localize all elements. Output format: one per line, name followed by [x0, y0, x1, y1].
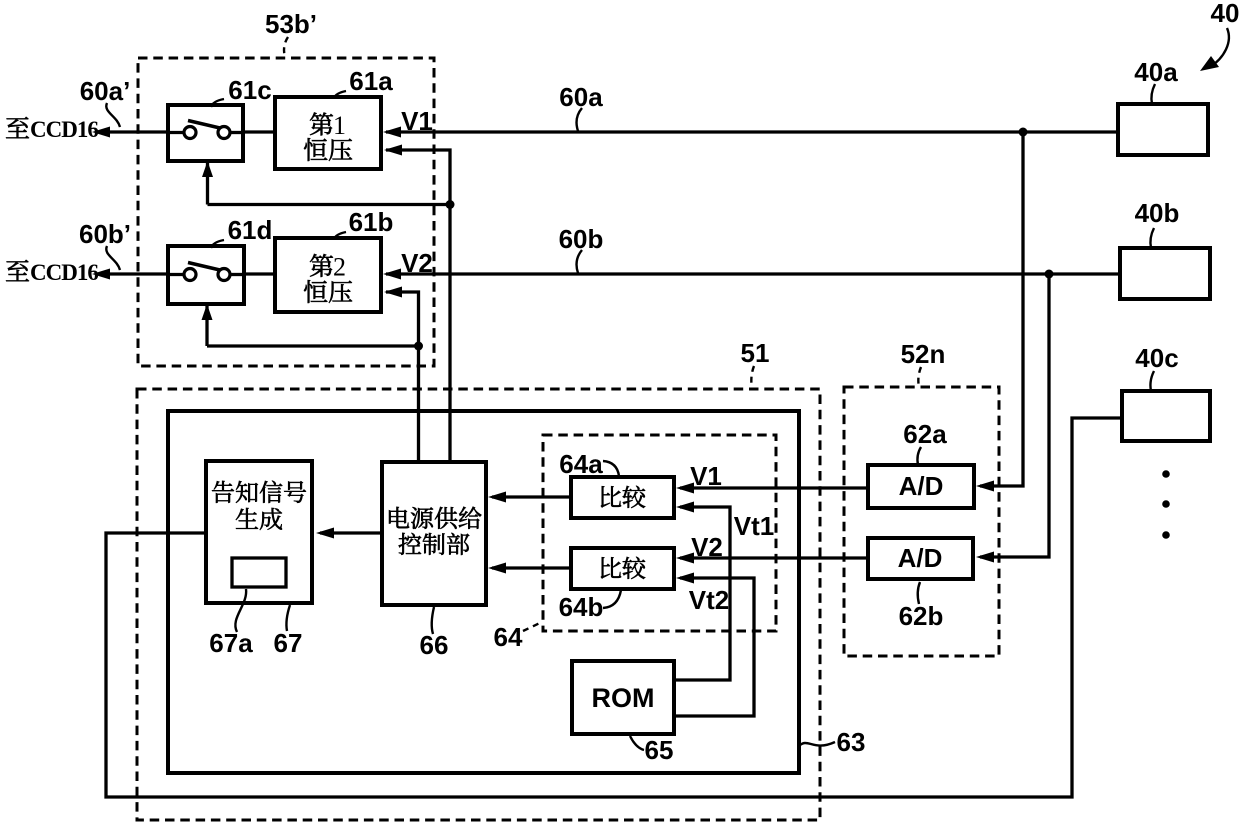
box 40a	[1118, 104, 1208, 155]
wire feedback to switch 61c	[202, 161, 455, 209]
wire from 60a down to A/D 62a	[976, 132, 1023, 492]
box 40c	[1122, 391, 1210, 441]
box ROM 65	[572, 661, 674, 734]
svg-text:40: 40	[1211, 0, 1240, 28]
svg-text:A/D: A/D	[898, 543, 943, 573]
switch 61d	[168, 246, 244, 304]
label 62a	[903, 419, 947, 465]
label 61b	[334, 207, 393, 239]
indicator 67a inner box	[232, 558, 286, 587]
wire to CCD16 (output 60a')	[92, 127, 168, 138]
label 64a	[559, 449, 619, 479]
svg-text:2: 2	[333, 253, 346, 282]
dashed box 64	[543, 435, 776, 631]
svg-text:61b: 61b	[349, 207, 394, 237]
svg-text:67a: 67a	[209, 628, 253, 658]
wire 60b (V2 line from 40b to 61b)	[383, 269, 1120, 280]
svg-text:62b: 62b	[899, 601, 944, 631]
wire V1: A/D 62a to comparator 64a	[676, 483, 868, 494]
wire to CCD16 (output 60b')	[92, 269, 168, 280]
label 52n	[901, 339, 946, 387]
wire V2: A/D 62b to comparator 64b	[676, 553, 868, 564]
label 67	[274, 605, 303, 658]
svg-text:V1: V1	[401, 106, 433, 136]
label 60b'	[79, 219, 131, 270]
svg-text:63: 63	[837, 727, 866, 757]
svg-text:61a: 61a	[349, 66, 393, 96]
svg-text:52n: 52n	[901, 339, 946, 369]
label 至CCD16 (lower)	[6, 260, 98, 285]
svg-text:V1: V1	[690, 461, 722, 491]
label 至CCD16 (upper)	[6, 117, 98, 142]
ellipsis dots	[1162, 470, 1170, 539]
label 40 with curved arrow	[1200, 0, 1239, 71]
wire 40c to notification signal generator 67	[106, 418, 1122, 797]
label 61a	[334, 66, 393, 98]
label 64	[494, 622, 542, 652]
box 61a (first constant voltage)	[275, 97, 381, 169]
wire Vt1: ROM to comparator 64a	[674, 502, 730, 681]
svg-text:64: 64	[494, 622, 523, 652]
svg-text:Vt1: Vt1	[734, 511, 774, 541]
svg-text:40a: 40a	[1134, 57, 1178, 87]
box 40b	[1120, 248, 1210, 299]
box A/D 62b	[868, 538, 973, 579]
junction dot feedback lower	[414, 342, 423, 351]
label 53b'	[265, 9, 317, 57]
box 61b (second constant voltage)	[275, 238, 381, 312]
svg-text:67: 67	[274, 628, 303, 658]
svg-text:Vt2: Vt2	[689, 585, 729, 615]
label 40c	[1135, 343, 1178, 391]
label 65	[630, 735, 673, 765]
label 64b	[559, 590, 621, 622]
label 40a	[1134, 57, 1178, 104]
box comparator 64b	[571, 548, 674, 589]
svg-text:CCD16: CCD16	[30, 117, 98, 142]
junction dot 60b/AD drop	[1045, 270, 1054, 279]
svg-text:40c: 40c	[1135, 343, 1178, 373]
svg-text:61d: 61d	[228, 215, 273, 245]
wire control input to 61b from 66	[384, 287, 419, 463]
svg-text:40b: 40b	[1135, 198, 1180, 228]
label 61d	[211, 215, 272, 248]
svg-text:1: 1	[333, 111, 346, 140]
svg-text:CCD16: CCD16	[30, 260, 98, 285]
dashed box 52n	[844, 387, 999, 656]
svg-text:62a: 62a	[903, 419, 947, 449]
wire 60a (V1 line from 40a to 61a)	[383, 127, 1118, 138]
wire control input to 61a from 66	[384, 145, 450, 463]
wire switch 61c to 61a	[243, 130, 275, 133]
svg-text:60a’: 60a’	[80, 76, 131, 106]
wire Vt2: ROM to comparator 64b	[674, 573, 754, 717]
label 67a	[209, 589, 253, 658]
svg-text:53b’: 53b’	[265, 9, 317, 39]
label 40b	[1135, 198, 1180, 248]
wire comparator 64a to 66	[488, 492, 571, 503]
wire feedback to switch 61d	[202, 304, 424, 351]
svg-text:ROM: ROM	[592, 683, 655, 713]
label 62b	[899, 582, 944, 631]
svg-text:66: 66	[420, 630, 449, 660]
switch 61c	[168, 105, 243, 161]
svg-text:61c: 61c	[228, 75, 271, 105]
svg-text:64a: 64a	[559, 449, 603, 479]
svg-text:60b’: 60b’	[79, 219, 131, 249]
label 60a'	[80, 76, 131, 127]
box comparator 64a	[571, 477, 674, 518]
junction dot 60a/AD drop	[1019, 128, 1028, 137]
svg-text:V2: V2	[401, 248, 433, 278]
svg-text:65: 65	[645, 735, 674, 765]
svg-text:A/D: A/D	[899, 471, 944, 501]
box 66 power supply control unit	[382, 462, 486, 605]
wire 66 to 67	[316, 528, 382, 539]
svg-text:64b: 64b	[559, 592, 604, 622]
dashed box 53b'	[138, 58, 434, 366]
dashed box 51	[137, 389, 820, 820]
wire comparator 64b to 66	[488, 563, 571, 574]
label 60b	[559, 224, 604, 273]
wire from 60b down to A/D 62b	[976, 274, 1049, 563]
label 60a	[559, 82, 603, 131]
label 66	[420, 607, 449, 660]
solid box 63	[168, 411, 799, 773]
junction dot feedback upper	[446, 200, 455, 209]
wire switch 61d to 61b	[244, 272, 275, 275]
label 61c	[211, 75, 272, 107]
box A/D 62a	[868, 465, 974, 508]
svg-text:51: 51	[741, 338, 770, 368]
label 63	[799, 727, 865, 757]
box 67 notification signal generator	[206, 461, 312, 603]
svg-text:V2: V2	[691, 532, 723, 562]
label 51	[741, 338, 770, 389]
